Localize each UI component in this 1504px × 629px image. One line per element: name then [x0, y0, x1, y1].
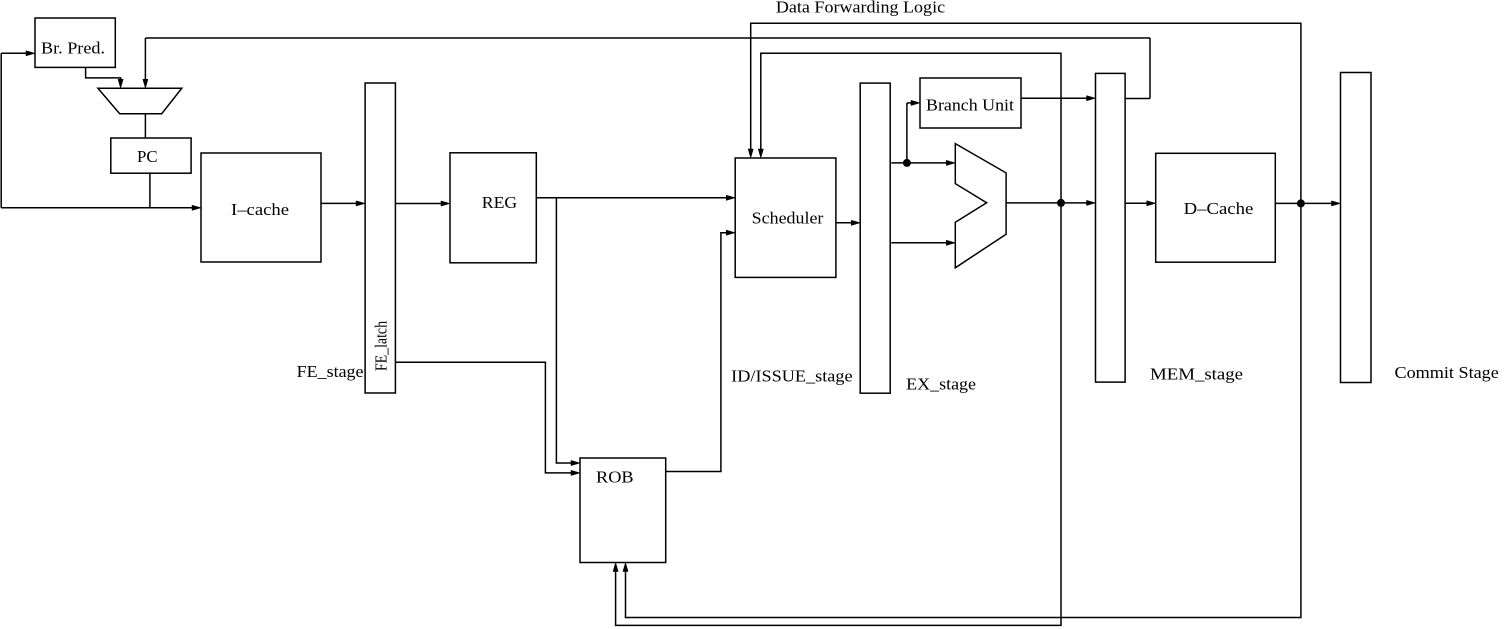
wire branch-redirect feedback into mux — [143, 38, 148, 88]
box Branch Unit — [920, 78, 1021, 128]
latch ID/EX stage latch — [860, 83, 890, 393]
svg-text:REG: REG — [482, 193, 517, 212]
wire EX-result forwarding to Scheduler — [758, 53, 1061, 203]
wire FE_latch to REG — [395, 201, 450, 206]
svg-text:Data Forwarding Logic: Data Forwarding Logic — [776, 0, 946, 16]
svg-text:Br. Pred.: Br. Pred. — [41, 39, 105, 58]
wire REG to Scheduler — [536, 195, 735, 200]
wire PC output bus to I-cache — [1, 205, 201, 210]
latch FE_latch — [365, 83, 395, 393]
wire branch-redirect long horizontal — [145, 38, 1150, 99]
wire ROB to Scheduler lower input — [666, 230, 736, 471]
box ROB (reorder buffer) — [580, 458, 666, 563]
wire I-cache to FE_latch — [321, 201, 365, 206]
svg-text:D–Cache: D–Cache — [1184, 199, 1254, 218]
label ID/ISSUE_stage — [731, 367, 852, 386]
wire EX-result writeback to ROB — [613, 203, 1061, 626]
wire ID/EX latch to ALU input B — [891, 240, 955, 245]
svg-text:PC: PC — [137, 147, 158, 166]
svg-text:FE_latch: FE_latch — [372, 321, 391, 371]
box Scheduler — [735, 158, 836, 277]
svg-text:Commit Stage: Commit Stage — [1395, 363, 1499, 382]
box REG (register file) — [450, 153, 536, 263]
box I-cache — [201, 153, 321, 262]
box Br. Pred. (branch predictor) — [35, 18, 115, 67]
box D-Cache — [1156, 153, 1276, 262]
wire FE_latch lower output to ROB — [395, 362, 580, 475]
label EX_stage — [906, 375, 976, 394]
label Commit Stage — [1395, 363, 1499, 382]
wire REG tap down to ROB — [556, 198, 580, 466]
svg-text:ID/ISSUE_stage: ID/ISSUE_stage — [731, 367, 852, 386]
svg-text:I–cache: I–cache — [231, 200, 289, 219]
wire Br. Pred. output to mux — [86, 67, 124, 88]
latch Commit stage latch — [1341, 73, 1372, 383]
svg-text:EX_stage: EX_stage — [906, 375, 976, 394]
wire ID/EX latch to ALU input A — [891, 160, 955, 165]
wire ALU output to MEM latch — [1006, 200, 1095, 205]
svg-text:Branch Unit: Branch Unit — [926, 96, 1014, 115]
wire MEM latch to D-Cache — [1125, 201, 1156, 206]
node junction at ALU input A tap — [903, 159, 911, 167]
svg-text:MEM_stage: MEM_stage — [1150, 364, 1243, 383]
latch MEM stage latch — [1096, 73, 1126, 382]
ALU (execute unit) — [955, 144, 1006, 268]
label Data Forwarding Logic — [776, 0, 946, 16]
label FE_stage — [297, 362, 364, 381]
node junction at D-Cache output — [1297, 199, 1305, 207]
node junction at ALU output — [1057, 199, 1065, 207]
wire feedback bus up to Br. Pred. — [1, 51, 35, 208]
svg-text:ROB: ROB — [596, 468, 634, 487]
box PC — [111, 138, 191, 173]
wire MEM-result writeback to ROB — [623, 203, 1301, 617]
mux M1 (PC select mux) — [98, 88, 182, 114]
label MEM_stage — [1150, 364, 1243, 383]
wire PC bottom to bus — [149, 173, 151, 208]
wire D-Cache to Commit latch — [1275, 201, 1340, 206]
wire mux output to PC — [144, 114, 146, 138]
label FE_latch (rotated) — [372, 321, 391, 371]
svg-text:FE_stage: FE_stage — [297, 362, 364, 381]
wire tap up to Branch Unit — [907, 100, 920, 163]
wire Scheduler to ID/EX latch — [836, 220, 860, 225]
wire MEM-result forwarding to Scheduler — [748, 23, 1301, 203]
wire Branch Unit to MEM latch — [1021, 96, 1096, 101]
svg-text:Scheduler: Scheduler — [752, 208, 824, 227]
